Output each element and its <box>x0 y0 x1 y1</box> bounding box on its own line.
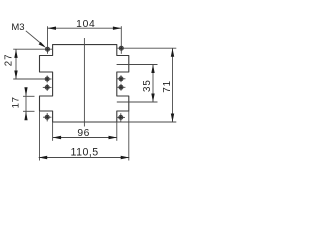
svg-text:110,5: 110,5 <box>70 147 98 159</box>
svg-text:96: 96 <box>77 128 89 139</box>
svg-text:M3: M3 <box>11 22 24 33</box>
svg-text:27: 27 <box>3 54 14 67</box>
svg-text:17: 17 <box>11 96 22 108</box>
svg-text:35: 35 <box>142 79 153 92</box>
svg-text:104: 104 <box>76 19 95 30</box>
svg-text:71: 71 <box>162 80 173 93</box>
